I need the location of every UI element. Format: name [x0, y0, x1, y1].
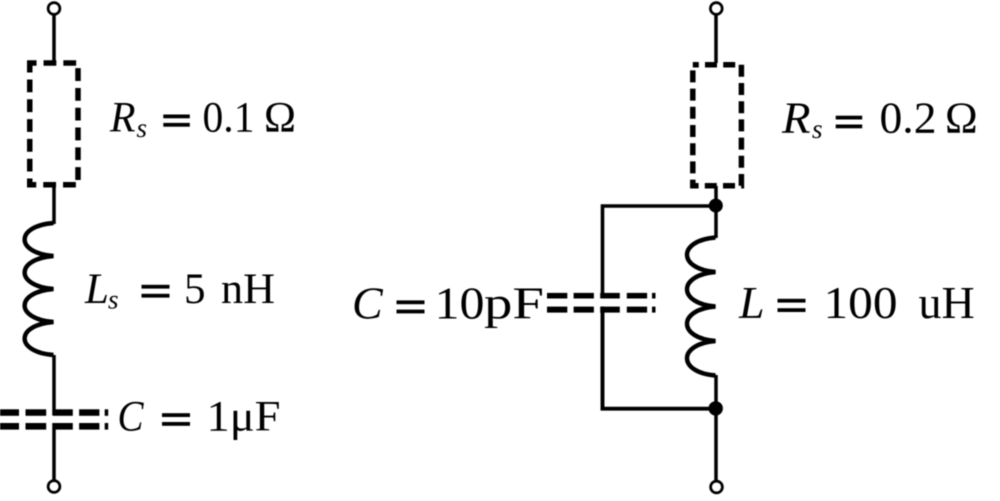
svg-text:R: R: [781, 94, 811, 143]
svg-text:R: R: [109, 95, 135, 142]
svg-text:s: s: [108, 285, 119, 315]
svg-text:C: C: [118, 394, 145, 441]
svg-text:C: C: [352, 278, 384, 329]
svg-text:uH: uH: [919, 277, 975, 328]
svg-text:pF: pF: [484, 278, 544, 329]
svg-text:5: 5: [184, 266, 206, 313]
svg-text:100: 100: [824, 277, 898, 328]
svg-text:0.2: 0.2: [880, 94, 937, 143]
svg-text:Ω: Ω: [945, 94, 978, 143]
svg-text:L: L: [738, 277, 765, 328]
svg-text:s: s: [137, 113, 148, 143]
svg-text:Ω: Ω: [264, 95, 296, 142]
svg-text:0.1: 0.1: [203, 95, 255, 142]
svg-text:10: 10: [435, 278, 485, 329]
svg-text:s: s: [812, 114, 823, 144]
svg-text:1μF: 1μF: [207, 394, 281, 441]
svg-text:nH: nH: [221, 266, 275, 313]
svg-text:L: L: [84, 266, 109, 313]
